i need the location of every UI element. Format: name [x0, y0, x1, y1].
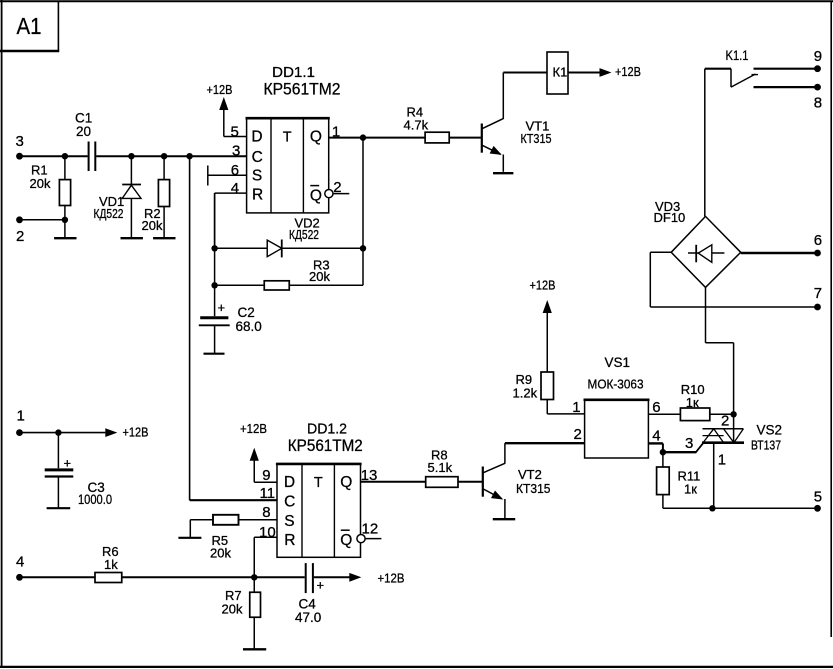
svg-text:VS2: VS2 — [757, 422, 783, 437]
svg-text:+12В: +12В — [378, 570, 405, 585]
svg-text:10: 10 — [259, 524, 276, 541]
svg-text:+12В: +12В — [240, 421, 267, 436]
svg-text:5.1k: 5.1k — [428, 460, 453, 475]
svg-text:Q: Q — [340, 532, 352, 549]
svg-text:+: + — [317, 578, 325, 593]
svg-text:DD1.2: DD1.2 — [307, 421, 347, 438]
svg-text:8: 8 — [262, 504, 270, 521]
svg-text:12: 12 — [362, 521, 379, 538]
svg-text:4: 4 — [652, 428, 660, 445]
svg-text:9: 9 — [262, 467, 270, 484]
svg-text:+: + — [64, 455, 72, 470]
svg-text:A1: A1 — [17, 13, 42, 39]
svg-text:11: 11 — [260, 485, 276, 502]
svg-text:DD1.1: DD1.1 — [272, 64, 315, 81]
svg-text:1к: 1к — [686, 395, 699, 410]
svg-text:2: 2 — [574, 426, 582, 443]
svg-text:3: 3 — [685, 435, 693, 452]
svg-text:20k: 20k — [222, 602, 243, 617]
svg-text:D: D — [284, 474, 295, 491]
svg-text:VS1: VS1 — [605, 355, 631, 370]
svg-text:C: C — [284, 494, 295, 511]
svg-text:R: R — [284, 532, 295, 549]
svg-text:S: S — [284, 513, 294, 530]
svg-text:КР561ТМ2: КР561ТМ2 — [288, 437, 363, 455]
svg-text:1: 1 — [718, 451, 726, 468]
svg-text:6: 6 — [814, 232, 822, 249]
svg-text:20k: 20k — [210, 545, 231, 560]
svg-text:C2: C2 — [238, 305, 255, 320]
svg-text:+12В: +12В — [207, 82, 233, 97]
svg-text:2: 2 — [16, 228, 24, 245]
svg-text:КД522: КД522 — [289, 228, 319, 242]
svg-text:+12В: +12В — [615, 64, 641, 79]
svg-text:КТ315: КТ315 — [521, 131, 552, 146]
svg-text:20k: 20k — [30, 176, 51, 191]
svg-text:DF10: DF10 — [654, 210, 686, 225]
svg-text:8: 8 — [814, 94, 822, 111]
svg-text:20: 20 — [76, 124, 91, 139]
svg-text:20k: 20k — [142, 218, 163, 233]
svg-text:2: 2 — [721, 413, 729, 430]
svg-text:68.0: 68.0 — [236, 319, 262, 334]
svg-text:VT2: VT2 — [518, 467, 542, 482]
svg-text:5: 5 — [231, 123, 239, 140]
svg-text:C: C — [252, 149, 263, 166]
svg-text:1: 1 — [572, 399, 580, 416]
svg-text:4: 4 — [231, 180, 239, 197]
svg-text:9: 9 — [814, 48, 822, 65]
svg-text:3: 3 — [232, 143, 240, 160]
svg-text:+12В: +12В — [530, 278, 556, 293]
svg-text:1: 1 — [17, 407, 25, 424]
svg-text:4: 4 — [16, 554, 24, 571]
svg-text:47.0: 47.0 — [295, 610, 321, 625]
svg-text:T: T — [314, 475, 323, 491]
svg-text:К1: К1 — [553, 65, 568, 80]
svg-text:Q: Q — [340, 474, 352, 491]
svg-text:2: 2 — [333, 179, 341, 196]
svg-text:КД522: КД522 — [94, 207, 124, 221]
svg-text:1к: 1к — [684, 481, 697, 496]
svg-text:1.2k: 1.2k — [513, 386, 538, 401]
svg-text:D: D — [251, 129, 262, 146]
svg-text:R: R — [252, 187, 263, 204]
svg-text:1000.0: 1000.0 — [78, 492, 112, 507]
svg-text:1k: 1k — [104, 557, 118, 572]
svg-text:S: S — [252, 168, 262, 185]
svg-text:R7: R7 — [225, 588, 242, 603]
svg-text:5: 5 — [814, 488, 822, 505]
svg-text:4.7k: 4.7k — [404, 118, 429, 133]
svg-text:+12В: +12В — [123, 425, 149, 440]
svg-text:КР561ТМ2: КР561ТМ2 — [264, 81, 341, 99]
svg-text:6: 6 — [652, 399, 660, 416]
svg-text:+: + — [218, 300, 226, 315]
svg-text:3: 3 — [16, 133, 24, 150]
svg-text:7: 7 — [814, 285, 822, 302]
svg-text:ВТ137: ВТ137 — [751, 437, 781, 452]
svg-text:20k: 20k — [309, 269, 330, 284]
svg-text:T: T — [283, 129, 292, 145]
svg-text:K1.1: K1.1 — [726, 48, 749, 63]
svg-text:Q: Q — [310, 129, 322, 146]
svg-text:КТ315: КТ315 — [516, 481, 551, 496]
svg-text:МОК-3063: МОК-3063 — [588, 377, 644, 392]
svg-text:6: 6 — [231, 162, 239, 179]
svg-text:Q: Q — [310, 187, 322, 204]
